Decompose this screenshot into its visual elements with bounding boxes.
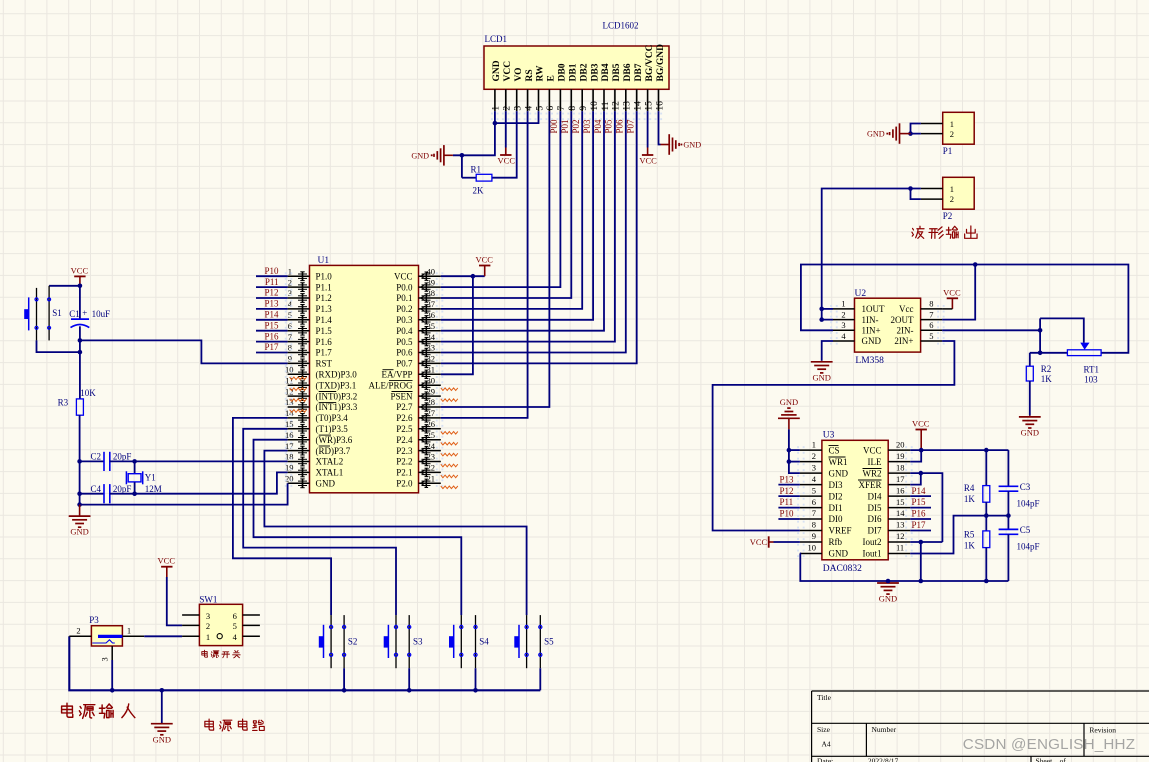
wire net P15 [256,330,288,332]
svg-text:DB5: DB5 [612,63,622,81]
svg-text:GND: GND [492,60,502,81]
wire U2 pin4 to ground [822,341,833,361]
pin 2 (VCC) of LCD1 [502,61,513,120]
wire U2 pin2 [822,309,833,320]
wire net P11 [778,507,800,509]
svg-text:19: 19 [285,463,294,473]
wire U2 pin6 to wiper net [942,329,1040,331]
svg-text:P17: P17 [264,342,279,352]
svg-text:DB4: DB4 [601,63,611,81]
wire P2.6 to LCD RS [441,111,528,418]
wire LCD pin3 VO down to R1 [492,111,517,178]
svg-text:C3: C3 [1020,482,1031,492]
svg-text:P14: P14 [264,310,279,320]
svg-text:ALE/PROG: ALE/PROG [368,380,413,390]
junction [460,153,465,158]
pushbutton S1 [24,286,50,341]
svg-text:32: 32 [427,354,436,364]
svg-text:10: 10 [808,543,817,553]
pin 15 ((T1)P3.5) of U1 [285,419,348,434]
ground GND (power input) [151,690,173,744]
pin of SW1 (left) [182,635,199,637]
svg-text:8: 8 [288,343,292,353]
svg-text:P04: P04 [593,119,603,134]
pin 6 (E) of LCD1 [546,75,557,120]
svg-text:20pF: 20pF [113,484,132,494]
power VCC (reset circuit) [71,265,89,285]
svg-text:S1: S1 [52,308,62,318]
wire VCC row to S1 [49,285,80,287]
overline WR1 [829,456,846,458]
svg-text:15: 15 [285,419,294,429]
wire U2 pin5 to U3 VREF [713,341,955,531]
svg-text:11: 11 [285,375,293,385]
svg-text:DI3: DI3 [829,480,843,490]
wire P0.1 to LCD DB1 [441,111,572,298]
microcontroller U1 [310,265,419,492]
wire U2 pin8 to VCC [942,308,952,310]
wire net P12 [256,297,288,299]
pin 2 (1IN-) of U2 [830,309,878,324]
junction [473,688,478,693]
wire P0.5 to LCD DB5 [441,111,615,342]
svg-text:(T0)P3.4: (T0)P3.4 [316,413,349,423]
op-amp U2 (LM358) [855,298,921,352]
pin 18 (WR2) of U3 [863,462,913,478]
svg-text:DB2: DB2 [579,63,589,81]
svg-text:CS: CS [829,445,840,455]
connector P2 [943,177,975,209]
svg-text:P2.0: P2.0 [396,479,413,489]
svg-text:4: 4 [233,632,238,642]
junction [1038,351,1043,356]
svg-text:P1.4: P1.4 [316,315,333,325]
svg-text:1: 1 [841,299,845,309]
pin 5 (P1.4) of U1 [285,310,332,325]
svg-text:P05: P05 [604,119,614,134]
svg-text:18: 18 [896,462,905,472]
svg-text:18: 18 [285,452,294,462]
overline PROG [389,380,413,382]
svg-text:37: 37 [427,299,436,309]
wire Rfb [774,541,800,543]
capacitor C2 [80,452,135,471]
wire EA/VPP to VCC rail [441,276,473,374]
svg-text:3: 3 [812,462,816,472]
svg-text:2022/8/17: 2022/8/17 [868,757,899,762]
wire pin6 node down to divider [1039,318,1041,352]
ground GND (crystal circuit) [69,505,91,537]
pin 10 (GND) of U3 [797,543,848,559]
svg-text:P07: P07 [626,119,636,134]
svg-text:XFER: XFER [858,480,881,490]
pin 1 of P2 [921,188,943,190]
text 电源输入 [62,703,135,718]
text 波形输出 [912,226,977,238]
svg-text:XTAL2: XTAL2 [316,457,344,467]
svg-text:RS: RS [525,69,535,81]
svg-text:1K: 1K [964,540,976,550]
svg-text:10: 10 [590,101,600,111]
junction [132,459,137,464]
svg-text:E: E [547,75,557,81]
svg-text:Vcc: Vcc [899,304,914,314]
no-connect marker [441,432,458,435]
svg-text:P0.6: P0.6 [396,348,413,358]
pin 17 ((RD)P3.7) of U1 [285,441,351,456]
svg-text:12: 12 [285,386,294,396]
svg-text:8: 8 [929,299,933,309]
svg-text:VCC: VCC [943,287,961,297]
svg-text:17: 17 [285,441,294,451]
svg-text:P13: P13 [264,299,279,309]
svg-text:P0.2: P0.2 [396,304,412,314]
svg-text:2: 2 [288,277,292,287]
no-connect marker [441,399,458,402]
svg-text:5: 5 [929,331,933,341]
resistor R4 [983,450,990,515]
svg-text:P2: P2 [943,211,953,221]
svg-text:S2: S2 [348,637,358,647]
svg-text:2K: 2K [473,186,485,196]
svg-text:VCC: VCC [639,156,657,166]
svg-text:(TXD)P3.1: (TXD)P3.1 [316,380,357,390]
svg-text:P17: P17 [912,520,927,530]
wire R3 to crystal node [79,415,81,504]
svg-text:VCC: VCC [475,255,493,265]
wire U1 to S5 [264,451,526,615]
pin 15 (DI5) of U3 [868,497,913,513]
svg-text:GND: GND [780,397,798,407]
wire P1 pins to GND [911,124,921,134]
ground GND (R2) [1019,415,1041,437]
svg-text:7: 7 [812,508,816,518]
capacitor C5 [999,516,1019,581]
wire net P13 [256,308,288,310]
pin 5 (2IN+) of U2 [894,331,944,346]
pin 3 of P3 [100,646,113,662]
svg-text:+: + [82,308,87,318]
svg-text:GND: GND [70,527,88,537]
svg-text:26: 26 [427,419,436,429]
svg-text:VCC: VCC [750,537,768,547]
pin of SW1 (left) [182,624,199,626]
svg-text:16: 16 [896,485,905,495]
svg-text:GND: GND [867,130,885,139]
svg-text:(WR)P3.6: (WR)P3.6 [316,435,353,445]
svg-text:20: 20 [285,474,294,484]
svg-text:VCC: VCC [863,445,882,455]
svg-text:13: 13 [623,101,633,111]
wire LCD pin2 to VCC [505,111,507,147]
pin 11 (Iout1) of U3 [863,543,913,559]
pin 37 (P0.2) of U1 [396,299,443,314]
pin 2 of P2 [921,198,943,200]
svg-text:C5: C5 [1020,525,1031,535]
svg-text:P2.4: P2.4 [396,435,413,445]
svg-text:P01: P01 [560,119,570,133]
pin 8 (VREF) of U3 [797,520,851,536]
junction [160,688,165,693]
junction [919,540,924,545]
pin 32 (P0.7) of U1 [396,354,443,369]
wire P0.3 to LCD DB3 [441,111,593,320]
pin 8 (DB1) of LCD1 [567,63,578,120]
wire net P13 [778,484,800,486]
wire S5 to ground bus [539,668,541,690]
junction [919,471,924,476]
svg-text:29: 29 [427,386,436,396]
svg-text:9: 9 [288,354,292,364]
svg-text:P2.1: P2.1 [396,468,412,478]
svg-text:GND: GND [411,151,429,160]
svg-text:Revision: Revision [1089,726,1116,735]
svg-text:P1.0: P1.0 [316,271,333,281]
DAC U3 (DAC0832) [822,440,888,560]
wire S4 to ground bus [475,668,477,690]
svg-text:2: 2 [950,129,954,139]
svg-text:5: 5 [233,621,237,631]
wire S3 to ground bus [408,668,410,690]
svg-text:Size: Size [817,725,831,734]
wire XTAL2 to crystal [135,460,288,462]
svg-text:25: 25 [427,430,436,440]
svg-text:10uF: 10uF [92,309,111,319]
resistor R5 [983,516,990,581]
svg-text:20: 20 [896,439,905,449]
wire U3 pin10 GND to bus [800,554,1009,582]
svg-text:(T1)P3.5: (T1)P3.5 [316,424,349,434]
pin 27 (P2.6) of U1 [396,408,443,423]
pin 11 ((TXD)P3.1) of U1 [285,375,356,390]
svg-text:DI6: DI6 [868,514,882,524]
svg-text:S4: S4 [479,637,489,647]
pin 2 (P1.1) of U1 [285,277,332,292]
text 电源电路 [205,719,264,731]
junction [78,284,83,289]
junction [110,688,115,693]
pin 18 (XTAL2) of U1 [285,452,343,467]
pin 6 (P1.5) of U1 [285,321,332,336]
svg-text:10: 10 [285,365,294,375]
pin 7 (2OUT) of U2 [891,309,945,324]
ground GND (U2) [811,361,833,383]
pin 3 (VO) of LCD1 [513,67,524,120]
pin 25 (P2.4) of U1 [396,430,443,445]
no-connect marker [441,464,458,467]
svg-text:VCC: VCC [71,265,89,275]
no-connect marker [290,377,307,380]
pushbutton S2 [319,615,346,668]
svg-text:104pF: 104pF [1017,499,1040,509]
svg-text:R1: R1 [471,165,482,175]
svg-text:P02: P02 [571,119,581,133]
svg-text:6: 6 [812,497,816,507]
pin 11 (DB4) of LCD1 [600,63,611,120]
overline EA [383,369,394,371]
svg-text:34: 34 [427,332,436,342]
svg-text:DB3: DB3 [590,63,600,81]
svg-text:35: 35 [427,321,436,331]
pin 7 (DI0) of U3 [797,508,843,524]
svg-text:13: 13 [896,520,905,530]
pin 1 (1OUT) of U2 [830,299,885,314]
svg-text:3: 3 [841,320,845,330]
svg-text:DI7: DI7 [868,526,882,536]
svg-text:1OUT: 1OUT [862,304,885,314]
svg-text:R2: R2 [1041,364,1052,374]
pin 19 (ILE) of U3 [868,451,913,467]
svg-text:12: 12 [612,101,622,111]
pin 4 (P1.3) of U1 [285,299,332,314]
pin of SW1 (right) [243,635,260,637]
junction [984,448,989,453]
power VCC (above SW1) [158,556,176,577]
svg-text:GND: GND [879,594,897,604]
wire S2 to ground bus [343,668,345,690]
svg-text:24: 24 [427,441,436,451]
svg-text:GND: GND [829,549,849,559]
pin 10 (DB3) of LCD1 [589,63,600,120]
svg-text:P00: P00 [549,119,559,134]
svg-text:P3: P3 [89,615,99,625]
svg-text:DB7: DB7 [634,63,644,81]
svg-text:P1.5: P1.5 [316,326,333,336]
svg-text:R4: R4 [964,483,975,493]
svg-text:BG/VCC: BG/VCC [645,44,655,81]
pin 2 (WR1) of U3 [797,451,847,467]
wire U1 to S4 [254,440,462,615]
junction [78,350,83,355]
pin 12 (DB5) of LCD1 [611,63,622,120]
svg-text:2: 2 [206,621,210,631]
svg-text:19: 19 [896,451,905,461]
svg-text:VCC: VCC [912,419,930,429]
svg-text:P1.7: P1.7 [316,348,333,358]
svg-text:LCD1602: LCD1602 [603,21,639,31]
overline CS [829,445,839,447]
power VCC (U2 pin8) [943,287,961,309]
pin 16 (DI4) of U3 [868,485,913,501]
svg-text:31: 31 [427,365,436,375]
pin 1 (GND) of LCD1 [491,60,502,120]
pin 7 (P1.6) of U1 [285,332,332,347]
no-connect marker [441,486,458,489]
wire WR2 net [910,473,942,542]
ground GND (P1) [867,123,911,144]
svg-text:DAC0832: DAC0832 [823,564,862,574]
svg-text:GND: GND [862,336,882,346]
pin 4 (RS) of LCD1 [524,69,535,120]
pin 29 (PSEN) of U1 [390,386,443,401]
svg-text:R3: R3 [58,398,69,408]
svg-text:3: 3 [288,288,292,298]
svg-text:7: 7 [929,309,933,319]
pin 12 ((INT0)P3.2) of U1 [285,386,357,401]
svg-text:P2.7: P2.7 [396,402,413,412]
junction [132,491,137,496]
pin 3 (GND) of U3 [797,462,848,478]
svg-text:DI2: DI2 [829,491,843,501]
ground GND (right of LCD) [661,134,702,155]
ground GND (left of LCD) [411,145,453,166]
svg-text:6: 6 [546,106,556,111]
pin 28 (P2.7) of U1 [396,397,443,412]
overline PSEN [392,391,413,393]
svg-text:P0.5: P0.5 [396,337,413,347]
wire U2 pin3 to feedback rail [801,265,1129,353]
svg-text:P1.2: P1.2 [316,293,332,303]
wire U2 pin1 [822,308,833,310]
pin 5 (DI2) of U3 [797,485,842,501]
svg-text:40: 40 [427,266,436,276]
pin 35 (P0.4) of U1 [396,321,443,336]
wire Iout1 to filter [910,516,1008,554]
wire P3 pin1 to SW1 [144,635,182,637]
junction [984,513,989,518]
svg-text:16: 16 [285,430,294,440]
junction [342,688,347,693]
pin 39 (P0.0) of U1 [396,277,443,292]
pin 7 (DB0) of LCD1 [557,63,568,120]
svg-text:Rfb: Rfb [829,537,843,547]
svg-text:4: 4 [524,106,534,111]
svg-text:13: 13 [285,397,294,407]
capacitor C1 [71,286,90,341]
svg-text:LM358: LM358 [855,356,884,366]
pin 30 (ALE/PROG) of U1 [368,375,443,390]
junction [919,448,924,453]
svg-text:VCC: VCC [498,156,516,166]
wire net P10 [256,275,288,277]
pin of SW1 (right) [243,624,260,626]
svg-text:9: 9 [579,106,589,111]
svg-text:ILE: ILE [868,457,882,467]
overline XFER [858,479,882,481]
no-connect marker [441,388,458,391]
wire Iout2 to ground bus [910,541,942,543]
svg-text:14: 14 [285,408,294,418]
pin 13 (DB6) of LCD1 [622,63,633,120]
svg-text:P1: P1 [943,146,953,156]
junction [77,459,82,464]
svg-text:2IN-: 2IN- [897,326,914,336]
junction [908,186,913,191]
junction [493,121,498,126]
svg-text:S3: S3 [413,637,423,647]
svg-text:23: 23 [427,452,436,462]
pin 8 (Vcc) of U2 [899,299,945,314]
svg-text:2IN+: 2IN+ [894,336,913,346]
text 电源开关 [202,650,240,658]
svg-text:15: 15 [644,101,654,111]
wire U2 pin7 to rail [942,265,975,320]
svg-text:12: 12 [896,531,905,541]
svg-text:39: 39 [427,277,436,287]
svg-text:11: 11 [896,543,904,553]
pin 20 (VCC) of U3 [863,439,913,455]
svg-text:36: 36 [427,310,436,320]
svg-text:9: 9 [812,531,816,541]
wire S1 bottom [37,340,80,352]
wire RST to reset circuit [80,340,288,363]
resistor R2 [1026,353,1033,416]
svg-text:GND: GND [812,372,830,382]
svg-text:30: 30 [427,375,436,385]
svg-text:1: 1 [950,119,954,129]
svg-text:103: 103 [1084,374,1098,384]
pin 24 (P2.3) of U1 [396,441,443,456]
